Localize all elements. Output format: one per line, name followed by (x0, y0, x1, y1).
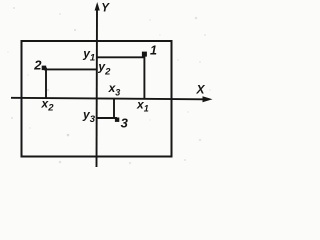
svg-text:3: 3 (121, 116, 129, 131)
svg-text:2: 2 (33, 57, 42, 72)
svg-text:y2: y2 (97, 59, 111, 77)
svg-text:X: X (196, 83, 206, 97)
svg-text:x3: x3 (108, 81, 121, 97)
svg-text:1: 1 (150, 43, 157, 57)
svg-text:Y: Y (101, 3, 110, 15)
svg-text:y3: y3 (82, 107, 96, 125)
svg-text:y1: y1 (82, 47, 95, 64)
